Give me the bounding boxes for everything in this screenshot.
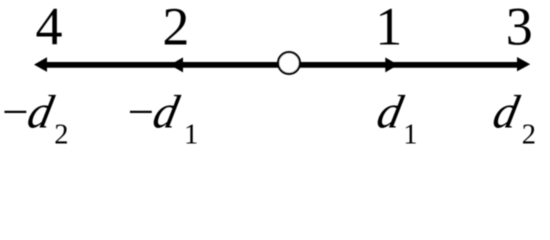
svg-text:2: 2 [162,0,189,57]
arrowhead left end (ray 4 tip) [34,57,47,72]
svg-text:d: d [489,87,524,138]
svg-text:3: 3 [506,0,533,57]
arrowhead mid-left (ray 2 tip) [170,57,183,72]
node: open circle at origin [278,52,300,74]
svg-text:4: 4 [36,0,63,57]
arrowhead mid-right (ray 1 tip) [385,57,398,72]
svg-text:d: d [373,87,408,138]
svg-text:1: 1 [375,0,402,57]
svg-text:1: 1 [184,120,198,151]
wire: main horizontal axis line [40,62,524,68]
svg-text:2: 2 [522,120,536,151]
svg-text:1: 1 [403,120,417,151]
svg-text:2: 2 [54,120,68,151]
arrowhead right end (ray 3 tip) [517,57,530,71]
